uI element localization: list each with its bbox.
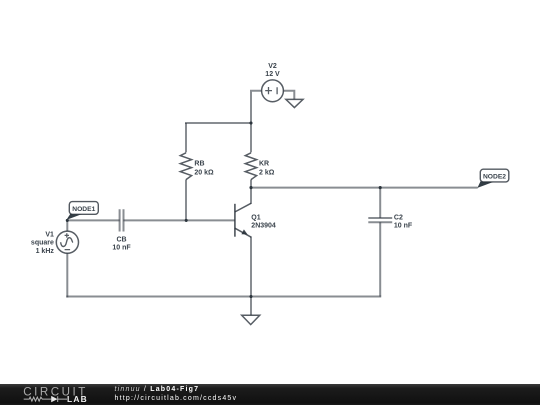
svg-text:12 V: 12 V xyxy=(265,71,280,78)
junction dot collector node xyxy=(249,186,252,189)
V1 sine wave glyph xyxy=(61,238,74,247)
wire RB top lead xyxy=(185,123,187,152)
wire KR bottom lead xyxy=(250,180,252,188)
transistor Q1 collector diagonal xyxy=(235,203,251,212)
wire output rail xyxy=(251,187,478,189)
wire RB bottom lead xyxy=(185,180,187,221)
wire ground lead xyxy=(250,297,252,316)
wire V1 top lead xyxy=(66,220,68,232)
junction dot node1 xyxy=(66,219,69,222)
svg-text:CB: CB xyxy=(116,236,126,243)
transistor Q1 base bar xyxy=(234,204,236,237)
logo resistor squiggle xyxy=(24,397,52,401)
V2 plus and bar symbols xyxy=(265,87,277,94)
svg-text:2N3904: 2N3904 xyxy=(251,223,276,230)
svg-text:NODE2: NODE2 xyxy=(483,174,506,181)
svg-text:KR: KR xyxy=(259,161,269,168)
footer title and url text xyxy=(115,385,238,404)
wire V2 left lead xyxy=(251,91,262,124)
svg-text:1 kHz: 1 kHz xyxy=(36,248,55,255)
svg-text:C2: C2 xyxy=(394,214,403,221)
voltage source V2 circle xyxy=(262,80,284,102)
svg-text:2 kΩ: 2 kΩ xyxy=(259,169,275,176)
wire C2 top lead xyxy=(379,188,381,218)
svg-text:square: square xyxy=(31,240,54,247)
node flag NODE2 xyxy=(477,169,508,188)
V1 plus and minus symbols xyxy=(65,233,71,249)
logo diode bar and line xyxy=(58,396,67,402)
junction dot top rail xyxy=(249,121,252,124)
capacitor C2 plates xyxy=(368,218,392,222)
wire bottom rail xyxy=(66,296,381,298)
svg-text:V1: V1 xyxy=(45,231,54,238)
capacitor CB plates xyxy=(120,209,124,231)
node flag NODE1 xyxy=(66,202,98,220)
voltage source V1 circle xyxy=(56,231,78,253)
svg-text:20 kΩ: 20 kΩ xyxy=(194,169,214,176)
junction dot emitter ground xyxy=(249,295,252,298)
svg-text:LAB: LAB xyxy=(67,394,88,404)
ground symbol at V2 xyxy=(286,99,303,107)
logo diode triangle xyxy=(51,396,57,402)
wire top rail xyxy=(185,122,251,124)
junction dot C2 node xyxy=(379,186,382,189)
svg-text:10 nF: 10 nF xyxy=(112,245,131,252)
footer bar xyxy=(0,384,540,405)
wire base lead right xyxy=(123,219,234,221)
ground symbol at emitter xyxy=(242,315,260,324)
resistor KR body xyxy=(245,153,256,180)
wire emitter lead xyxy=(250,237,252,297)
CircuitLab logo xyxy=(0,384,110,405)
wire KR top lead xyxy=(250,123,252,152)
wire base lead left xyxy=(67,219,119,221)
wire V2 right lead xyxy=(283,91,294,100)
svg-text:RB: RB xyxy=(194,161,204,168)
transistor Q1 emitter arrow xyxy=(241,229,247,234)
svg-text:V2: V2 xyxy=(268,63,277,70)
transistor Q1 emitter diagonal xyxy=(235,228,251,237)
junction dot base xyxy=(185,219,188,222)
wire C2 bottom lead xyxy=(379,222,381,296)
svg-text:Q1: Q1 xyxy=(251,214,260,221)
svg-text:10 nF: 10 nF xyxy=(394,223,413,230)
resistor RB body xyxy=(180,153,191,180)
wire V1 bottom lead xyxy=(66,253,68,297)
svg-text:NODE1: NODE1 xyxy=(72,206,95,213)
wire collector lead xyxy=(250,188,252,204)
